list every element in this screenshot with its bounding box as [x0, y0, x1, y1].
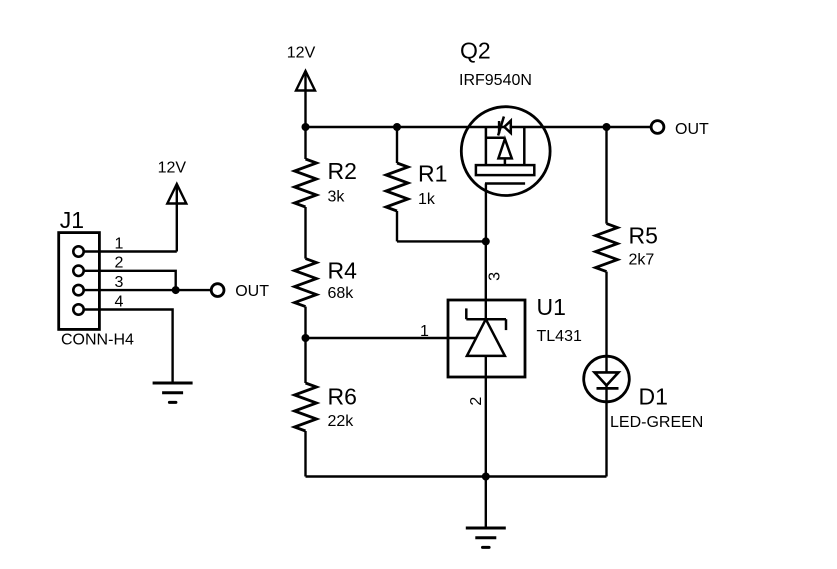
svg-text:2: 2 [468, 397, 485, 406]
svg-text:12V: 12V [158, 159, 187, 176]
terminal OUT (left) [211, 284, 224, 297]
svg-text:1k: 1k [418, 191, 436, 208]
resistor R4 [295, 259, 317, 338]
resistor R5 [596, 127, 618, 356]
wire bottom rail [306, 475, 607, 477]
wire J1 pin 1 to 12V flag [84, 250, 177, 252]
ground (main) [466, 477, 506, 548]
junction R4/R6/U1 pin1 [302, 334, 310, 342]
svg-text:3k: 3k [328, 189, 346, 206]
wire J1 pin 2 down to OUT node [84, 271, 176, 290]
LED D1 [584, 356, 630, 476]
svg-text:R4: R4 [328, 258, 358, 284]
svg-text:OUT: OUT [235, 283, 269, 300]
svg-text:3: 3 [486, 272, 503, 281]
svg-text:CONN-H4: CONN-H4 [61, 331, 134, 348]
wire J1 pin 3 to OUT terminal [84, 289, 212, 291]
junction R1/gate/U1 pin3 [482, 237, 490, 245]
transistor Q2 IRF9540N [461, 107, 550, 242]
resistor R6 [295, 338, 317, 477]
svg-text:LED-GREEN: LED-GREEN [610, 414, 703, 431]
svg-text:OUT: OUT [675, 121, 709, 138]
svg-text:1: 1 [420, 323, 429, 340]
connector J1 body CONN-H4 [59, 233, 100, 330]
power flag 12V (main rail) [296, 71, 315, 127]
resistor R1 [386, 127, 408, 241]
wire R1 bottom to gate node [397, 240, 486, 242]
junction rail / R5 [603, 123, 611, 131]
wire U1 pin 2 to bottom rail [485, 377, 487, 477]
svg-text:R6: R6 [328, 384, 357, 410]
junction bottom rail / ground [482, 473, 490, 481]
junction rail / R2 [302, 123, 310, 131]
svg-text:R5: R5 [629, 223, 658, 249]
terminal OUT (right) [651, 121, 664, 134]
svg-text:22k: 22k [328, 413, 355, 430]
svg-text:D1: D1 [639, 384, 668, 410]
svg-text:J1: J1 [60, 207, 84, 233]
power flag 12V (J1) [167, 184, 186, 252]
junction rail / R1 [393, 123, 401, 131]
wire gate node to U1 pin 3 [485, 241, 487, 300]
wire J1 pin 4 to ground [84, 310, 173, 384]
svg-text:2: 2 [115, 255, 124, 272]
svg-text:4: 4 [115, 293, 124, 310]
svg-text:12V: 12V [287, 45, 316, 62]
op-amp U1 TL431 [448, 300, 525, 377]
svg-text:R1: R1 [418, 161, 447, 187]
wire top rail 12V to OUT [306, 126, 652, 128]
resistor R2 [295, 127, 317, 259]
svg-text:R2: R2 [328, 158, 357, 184]
svg-text:U1: U1 [537, 294, 566, 320]
svg-text:1: 1 [115, 235, 124, 252]
svg-text:2k7: 2k7 [629, 252, 655, 269]
svg-text:3: 3 [115, 274, 124, 291]
svg-text:TL431: TL431 [537, 328, 582, 345]
svg-text:Q2: Q2 [460, 38, 491, 64]
svg-text:68k: 68k [328, 285, 355, 302]
junction J1 pin2/pin3 node [172, 286, 180, 294]
svg-text:IRF9540N: IRF9540N [459, 72, 532, 89]
ground (J1) [153, 383, 193, 402]
wire U1 pin 1 from R4/R6 node [306, 337, 478, 339]
